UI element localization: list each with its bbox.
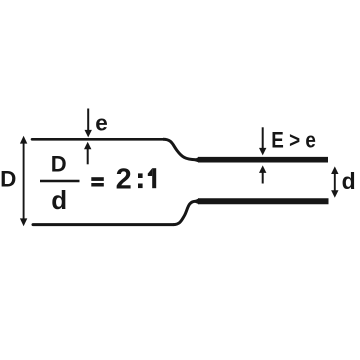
small tube bottom wall (thick bar) <box>198 198 329 204</box>
svg-text:2: 2 <box>116 163 132 195</box>
ratio value 1 <box>152 168 156 188</box>
ratio colon <box>138 173 143 178</box>
small tube top wall (thick bar) <box>198 157 328 163</box>
svg-text:e: e <box>95 111 108 136</box>
wall thickness e down arrow <box>87 109 89 132</box>
large tube top wall (thin line) <box>32 138 163 141</box>
ratio fraction bar <box>40 180 80 183</box>
equals sign <box>91 177 104 181</box>
dimension arrow D top head <box>20 136 27 144</box>
dimension arrow D bottom head <box>20 218 27 226</box>
svg-text:d: d <box>342 168 356 194</box>
wall thickness E up arrow <box>262 172 264 184</box>
dimension arrow d bottom head <box>331 190 338 198</box>
svg-text:D: D <box>0 166 16 191</box>
large tube bottom wall (thin line) <box>33 223 173 226</box>
small tube top wall left taper <box>192 157 199 163</box>
dimension arrow d shaft <box>334 170 336 194</box>
svg-text:D: D <box>51 152 67 177</box>
dimension arrow D shaft <box>23 141 25 221</box>
large tube bottom transition S-curve <box>173 201 196 224</box>
wall thickness E down arrow <box>262 127 264 149</box>
wall thickness e up arrow <box>87 148 89 165</box>
small tube bottom wall left taper <box>192 198 199 204</box>
svg-text:d: d <box>51 185 67 215</box>
svg-text:E > e: E > e <box>271 128 316 153</box>
dimension arrow d top head <box>331 166 338 174</box>
large tube top transition S-curve <box>163 139 196 159</box>
